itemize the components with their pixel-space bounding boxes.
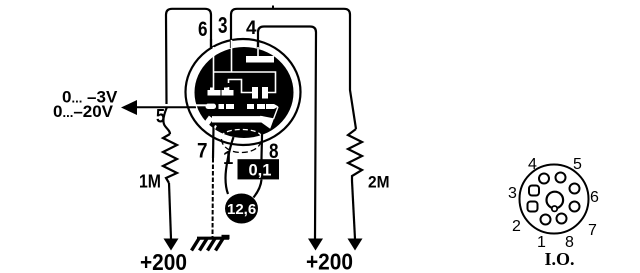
heater ellipse arc (black, outside disc): [222, 139, 262, 153]
grid row 1 blob left: [208, 88, 221, 96]
resistor R1 1M: [163, 134, 177, 183]
grid electrode lead from pin 3 (white): [231, 40, 233, 72]
svg-text:0...–20V: 0...–20V: [53, 102, 114, 121]
svg-text:12,6: 12,6: [227, 201, 256, 218]
wire 2M to arrow: [352, 181, 355, 239]
grid row 1 blob right: [222, 88, 234, 96]
socket pin hole 6: [570, 184, 580, 194]
label 0...-3V: [62, 88, 118, 107]
socket pin label 2: [512, 218, 521, 235]
internal connection frame (white lines): [214, 72, 276, 93]
value label 1M: [139, 170, 161, 191]
socket pin hole 5: [556, 173, 566, 183]
resistor R2 2M: [348, 129, 362, 181]
socket pin hole 2: [528, 202, 538, 212]
svg-text:2M: 2M: [368, 173, 390, 192]
pin label 6: [198, 18, 208, 41]
svg-text:5: 5: [573, 156, 582, 173]
anode top bar (white): [246, 56, 274, 63]
heater ellipse arc (white dashed, inside disc): [222, 130, 262, 138]
tube pin 6 lead stub: [210, 39, 212, 49]
tube V1 envelope: [186, 39, 301, 145]
arrow to +200 (mid): [308, 239, 323, 251]
input arrow head: [121, 100, 137, 115]
svg-text:+200: +200: [306, 249, 353, 273]
socket center key: [547, 192, 564, 209]
connection row2 to cathode (white diagonal): [274, 107, 279, 119]
wire input arrow shaft: [136, 106, 196, 108]
socket pin hole 4: [539, 174, 549, 184]
wire pin 7 (cathode) to ground: [212, 128, 215, 159]
svg-text:+200: +200: [140, 249, 187, 273]
source 12,6 V (heater supply circle): [225, 194, 258, 224]
label 0...-20V: [53, 102, 114, 121]
socket pin label 4: [528, 156, 537, 173]
value label 2M: [368, 173, 390, 192]
wire junction to 1M resistor: [164, 107, 170, 134]
cathode to pin7 stub (white): [214, 126, 216, 130]
arrow from 2M down: [348, 239, 363, 251]
power label +200 (left): [140, 249, 187, 273]
svg-text:0,1: 0,1: [249, 162, 272, 180]
socket pin label 5: [573, 156, 582, 173]
socket label I.O.: [545, 249, 575, 269]
svg-text:I.O.: I.O.: [545, 249, 575, 269]
svg-text:4: 4: [528, 156, 537, 173]
wire grid input loop (pin 6 to input junction): [166, 9, 211, 104]
wire screen grid loop (pin 3 to 2M): [231, 9, 356, 129]
pin label 1: [223, 147, 233, 168]
socket pin label 6: [590, 189, 599, 206]
arrow to +200 (left): [164, 239, 179, 251]
pin label 3: [218, 12, 228, 38]
power label +200 (right): [306, 249, 353, 273]
socket outline I.O.: [520, 165, 589, 234]
internal tick: [228, 87, 230, 90]
internal connection lower (white): [229, 80, 253, 93]
socket pin label 1: [537, 234, 546, 251]
socket pin label 7: [588, 222, 597, 239]
svg-text:5: 5: [156, 107, 165, 128]
wire pin 7 lower segment: [212, 158, 215, 237]
pin label 4: [246, 18, 257, 39]
tube pin 3 lead stub: [230, 39, 232, 48]
cathode band (white): [204, 116, 274, 129]
svg-text:6: 6: [590, 189, 599, 206]
socket pin hole 1: [541, 215, 551, 225]
wire pin 1 (heater) to 12.6V source: [226, 137, 234, 194]
socket pin label 8: [565, 234, 574, 251]
value label 0,1: [249, 162, 272, 180]
tube V1 internal electrode assembly (black disc): [195, 47, 294, 138]
socket pin hole 8: [557, 214, 567, 224]
anode lead from pin 4 (white): [257, 47, 259, 57]
grid row 2 (pin5 connection row, white): [195, 104, 279, 109]
tube pin 4 lead stub: [257, 40, 259, 49]
socket key notch: [552, 206, 557, 211]
component 0,1 (black box): [238, 159, 280, 179]
socket pin hole 7: [570, 202, 580, 212]
svg-text:3: 3: [218, 12, 228, 38]
svg-text:1M: 1M: [139, 170, 161, 191]
grid electrode G1 lead (white, from pin 6): [213, 47, 215, 90]
value label 12,6: [227, 201, 256, 218]
svg-text:6: 6: [198, 18, 208, 41]
wire anode loop (pin 4 to +200): [258, 27, 316, 240]
screen plates (thick white bars): [252, 87, 268, 99]
wire 0,1 box to 12.6V source: [254, 180, 262, 198]
svg-text:7: 7: [588, 222, 597, 239]
ground symbol: [192, 237, 230, 251]
svg-text:3: 3: [508, 185, 517, 202]
wire 1M to +200 arrow: [169, 183, 171, 239]
pin label 8: [269, 140, 279, 163]
svg-text:4: 4: [246, 18, 257, 39]
socket pin label 3: [508, 185, 517, 202]
junction tick top: [272, 6, 274, 10]
pin label 7: [197, 140, 208, 163]
svg-text:7: 7: [197, 140, 208, 163]
wire pin 8 (heater) to 0,1 box: [260, 135, 263, 161]
pin label 5: [156, 107, 165, 128]
svg-text:2: 2: [512, 218, 521, 235]
socket pin hole 3: [529, 186, 539, 196]
